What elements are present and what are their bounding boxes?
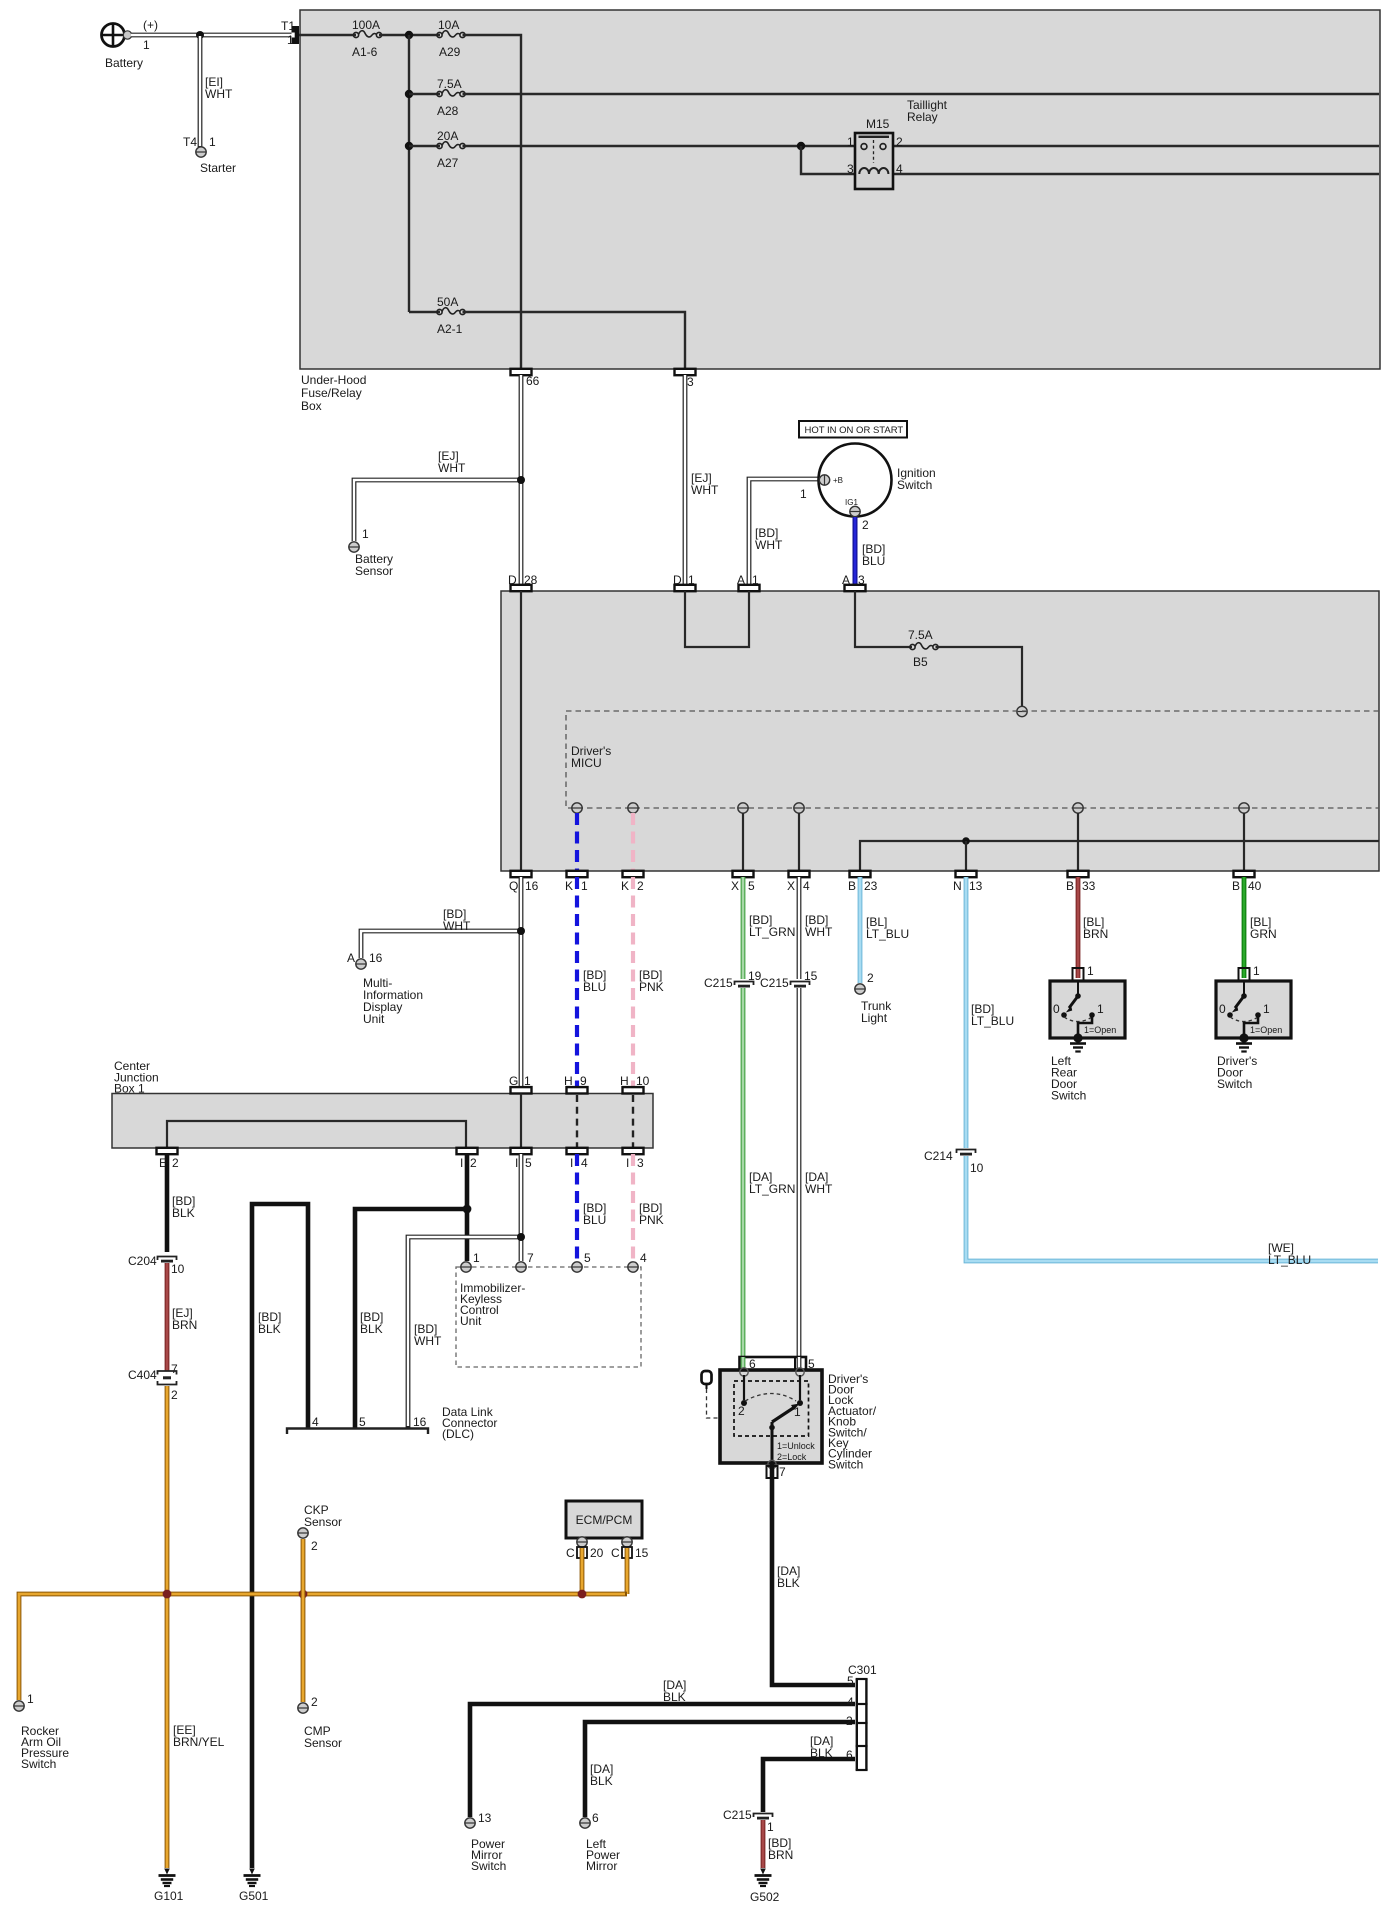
svg-text:C404: C404 [128, 1368, 157, 1382]
wire I2 to immobilizer pin 1 ([BD] BLK) [465, 1154, 470, 1261]
connector pin 66 [511, 369, 532, 375]
driver MICU dashed outline [566, 711, 1379, 808]
svg-text:2: 2 [172, 1156, 179, 1170]
svg-text:16: 16 [525, 879, 539, 893]
svg-text:(DLC): (DLC) [442, 1427, 474, 1441]
svg-text:BLU: BLU [583, 980, 606, 994]
svg-text:4: 4 [581, 1156, 588, 1170]
svg-text:G501: G501 [239, 1889, 269, 1903]
svg-text:2=Lock: 2=Lock [777, 1452, 807, 1462]
connector pin H 10 [623, 1087, 644, 1093]
svg-text:N: N [953, 879, 962, 893]
wire B23 to trunk light ([BL] LT_BLU) [858, 877, 863, 983]
connector pin A 3 [845, 585, 866, 591]
wire to fuse A27 [409, 145, 440, 147]
svg-text:9: 9 [580, 1074, 587, 1088]
svg-text:D: D [508, 573, 517, 587]
svg-text:WHT: WHT [438, 461, 466, 475]
svg-text:Switch: Switch [897, 478, 932, 492]
knob switch dashed box [734, 1381, 809, 1436]
wire to fuse A2-1 [409, 311, 440, 313]
svg-text:3: 3 [858, 573, 865, 587]
wire I3 to immobilizer pin 4 ([BD] PNK dashed) [631, 1154, 635, 1261]
wire C404 to G101 ([EE] BRN/YEL) [165, 1386, 170, 1868]
svg-text:Unit: Unit [460, 1314, 482, 1328]
junction ECM C20 [578, 1590, 587, 1599]
svg-text:1: 1 [847, 135, 854, 149]
driver door switch [1216, 964, 1291, 1091]
wire N13 to C214 ([BD] LT_BLU) [964, 877, 969, 1148]
svg-text:I: I [570, 1156, 573, 1170]
wire fuse A28 to box right edge [463, 93, 1380, 95]
svg-text:Sensor: Sensor [355, 564, 393, 578]
svg-text:BLK: BLK [810, 1746, 833, 1760]
wire B33 to left rear door switch ([BL] BRN) [1076, 877, 1081, 978]
fuse A27 20A [437, 142, 465, 149]
wire relay pin 4 to box right edge [893, 173, 1379, 175]
svg-text:10: 10 [171, 1262, 185, 1276]
junction DLC ground branch [463, 1205, 472, 1214]
svg-text:A28: A28 [437, 104, 459, 118]
svg-text:2: 2 [896, 135, 903, 149]
svg-text:7.5A: 7.5A [437, 77, 462, 91]
wire bus to CMP sensor [301, 1594, 306, 1702]
svg-text:1: 1 [752, 573, 759, 587]
MICU input terminal [1017, 706, 1027, 716]
svg-text:Switch: Switch [828, 1457, 863, 1471]
connector pin B 23 [850, 871, 871, 877]
svg-text:4: 4 [640, 1251, 647, 1265]
svg-text:1: 1 [688, 573, 695, 587]
svg-text:16: 16 [369, 951, 383, 965]
svg-text:16: 16 [413, 1415, 427, 1429]
svg-text:6: 6 [592, 1811, 599, 1825]
internal wire A3 to fuse B5 [855, 591, 912, 647]
internal wire D28 to Q16 [520, 591, 522, 871]
internal wire D1 to A1 [685, 591, 749, 647]
svg-text:Switch: Switch [21, 1757, 56, 1771]
svg-text:M15: M15 [866, 117, 890, 131]
svg-text:Relay: Relay [907, 110, 938, 124]
svg-text:1: 1 [27, 1692, 34, 1706]
svg-text:BLK: BLK [663, 1690, 686, 1704]
svg-text:A27: A27 [437, 156, 459, 170]
svg-text:G502: G502 [750, 1890, 780, 1904]
fuse A1-6 100A [353, 31, 381, 38]
svg-text:C215: C215 [704, 976, 733, 990]
svg-text:B: B [1066, 879, 1074, 893]
MICU terminal B33 [1073, 803, 1083, 813]
svg-text:15: 15 [804, 969, 818, 983]
svg-text:WHT: WHT [805, 1182, 833, 1196]
svg-text:A1-6: A1-6 [352, 45, 378, 59]
multi-info display terminal [356, 959, 366, 969]
switch contact 1 [799, 1375, 801, 1400]
svg-text:Switch: Switch [1051, 1089, 1086, 1103]
wire fuse A1-6 to junction and fuse A29 [379, 34, 440, 36]
svg-text:40: 40 [1248, 879, 1262, 893]
svg-text:4: 4 [312, 1415, 319, 1429]
svg-text:1: 1 [524, 1074, 531, 1088]
switch arc [745, 1394, 796, 1402]
svg-text:I: I [460, 1156, 463, 1170]
svg-text:I: I [515, 1156, 518, 1170]
internal wire H10 to I3 (dashed) [632, 1095, 634, 1148]
wire to fuse A28 [409, 93, 440, 95]
svg-text:66: 66 [526, 374, 540, 388]
ground G501 [244, 1869, 261, 1887]
connector pin I 2 [457, 1148, 478, 1154]
connector pin H 9 [567, 1087, 588, 1093]
svg-text:C215: C215 [760, 976, 789, 990]
connector C204 pin 10 [158, 1257, 177, 1262]
ignition switch [819, 444, 892, 517]
wire C215 to door lock pin 5 (white, [DA] WHT) [797, 988, 802, 1369]
data link connector (DLC) [287, 1429, 428, 1435]
CKP sensor terminal [298, 1528, 308, 1538]
svg-text:1: 1 [473, 1251, 480, 1265]
svg-text:WHT: WHT [755, 538, 783, 552]
wire branch to multi-info display (white, [BD] WHT) [361, 931, 521, 958]
junction D before relay [797, 142, 805, 150]
svg-text:1: 1 [209, 135, 216, 149]
svg-text:1=Open: 1=Open [1250, 1025, 1282, 1035]
pin ring 5 [796, 1368, 804, 1376]
immobilizer-keyless control unit [456, 1267, 641, 1367]
svg-text:13: 13 [969, 879, 983, 893]
power mirror switch wire to C301 pin 4 ([DA] BLK) [470, 1704, 855, 1817]
internal wire E2 to I2 [167, 1121, 466, 1148]
svg-text:H: H [564, 1074, 573, 1088]
junction B [405, 90, 413, 98]
wire C215 to G502 ([BD] BRN) [761, 1820, 766, 1868]
MICU terminal X5 [738, 803, 748, 813]
svg-text:MICU: MICU [571, 756, 602, 770]
svg-text:1: 1 [767, 1820, 774, 1834]
MICU terminal X4 [794, 803, 804, 813]
wire I4 to immobilizer pin 5 ([BD] BLU dashed) [575, 1154, 579, 1261]
connector pin D 1 [675, 585, 696, 591]
svg-text:LT_BLU: LT_BLU [866, 927, 909, 941]
key cylinder icon [702, 1371, 712, 1384]
internal wire X5 [742, 813, 744, 871]
switch contact 2 [743, 1375, 745, 1400]
svg-text:WHT: WHT [443, 919, 471, 933]
svg-text:2: 2 [470, 1156, 477, 1170]
svg-text:G: G [509, 1074, 518, 1088]
svg-text:GRN: GRN [1250, 927, 1277, 941]
svg-text:2: 2 [171, 1388, 178, 1402]
wire junction to starter (white, [EI] WHT) [198, 36, 203, 147]
wire K1 to H9 ([BD] BLU dashed) [575, 877, 579, 1087]
wire relay pin 2 to box right edge [886, 145, 1379, 147]
svg-text:7: 7 [527, 1251, 534, 1265]
svg-text:0: 0 [1053, 1002, 1060, 1016]
svg-text:WHT: WHT [805, 925, 833, 939]
svg-text:4: 4 [803, 879, 810, 893]
HOT IN ON OR START tag [799, 421, 907, 438]
wire B40 to driver door switch ([BL] GRN) [1242, 877, 1247, 978]
svg-text:C214: C214 [924, 1149, 953, 1163]
junction C [405, 142, 413, 150]
svg-text:Under-Hood: Under-Hood [301, 373, 366, 387]
connector C215 pin 15 [791, 982, 810, 987]
svg-text:5: 5 [847, 1674, 854, 1688]
connector pin B 40 [1234, 871, 1255, 877]
svg-text:33: 33 [1082, 879, 1096, 893]
svg-text:7.5A: 7.5A [908, 628, 933, 642]
battery sensor terminal [349, 542, 359, 552]
junction A [405, 31, 413, 39]
svg-text:WHT: WHT [205, 87, 233, 101]
svg-text:20A: 20A [437, 129, 458, 143]
svg-text:20: 20 [590, 1546, 604, 1560]
rocker arm oil pressure switch terminal [14, 1701, 24, 1711]
svg-text:IG1: IG1 [845, 498, 858, 507]
svg-text:BLK: BLK [258, 1322, 281, 1336]
svg-text:2: 2 [846, 1714, 853, 1728]
connector pin B 33 [1068, 871, 1089, 877]
vertical feed to lower fuses [408, 35, 410, 312]
svg-text:C204: C204 [128, 1254, 157, 1268]
wire E2 to C204 ([BD] BLK) [165, 1154, 170, 1252]
svg-text:1=Unlock: 1=Unlock [777, 1441, 815, 1451]
svg-text:1=Open: 1=Open [1084, 1025, 1116, 1035]
immobilizer pin 7 [516, 1262, 526, 1272]
connector pin G 1 [511, 1087, 532, 1093]
svg-text:4: 4 [896, 162, 903, 176]
connector pin K 2 [623, 871, 644, 877]
pin ring 6 [740, 1368, 748, 1376]
svg-text:BLK: BLK [777, 1576, 800, 1590]
svg-text:Switch: Switch [1217, 1077, 1252, 1091]
svg-text:Box: Box [301, 399, 322, 413]
svg-text:C215: C215 [723, 1808, 752, 1822]
wire junction to DLC pin 5 ([BD] BLK) [355, 1209, 467, 1428]
svg-text:13: 13 [478, 1811, 492, 1825]
junction N13 [962, 837, 970, 845]
svg-text:2: 2 [738, 1404, 745, 1418]
wire pin 3 to D1 (white, [EJ] WHT) [683, 375, 688, 585]
fuse A28 7.5A [437, 90, 465, 97]
svg-text:I: I [626, 1156, 629, 1170]
svg-text:WHT: WHT [691, 483, 719, 497]
connector pin K 1 [567, 871, 588, 877]
wire stubs through connector [741, 1357, 746, 1369]
svg-text:(+): (+) [143, 18, 158, 32]
left rear door switch [1050, 964, 1125, 1103]
junction MID branch [517, 927, 525, 935]
svg-text:C: C [611, 1546, 620, 1560]
connector pin I 5 [511, 1148, 532, 1154]
fuse A29 10A [437, 31, 465, 38]
internal wire X4 [798, 813, 800, 871]
connector pin Q 16 [511, 871, 532, 877]
ground G101 [159, 1869, 176, 1887]
svg-text:3: 3 [637, 1156, 644, 1170]
wire ignition +B to A1 (white, [BD] WHT) [749, 479, 819, 585]
svg-text:BRN: BRN [1083, 927, 1108, 941]
left power mirror terminal [580, 1818, 590, 1828]
svg-text:50A: 50A [437, 295, 458, 309]
wire branch to DLC pin 16 (white, [BD] WHT) [408, 1237, 521, 1428]
svg-text:1: 1 [143, 38, 150, 52]
ECM terminal C 20 [577, 1537, 587, 1547]
svg-text:5: 5 [584, 1251, 591, 1265]
svg-text:Starter: Starter [200, 161, 236, 175]
orange bus wire ([EE] BRN/YEL net) [19, 1594, 627, 1700]
connector pin E 2 [157, 1148, 178, 1154]
connector C301 [856, 1679, 868, 1770]
junction at battery wire [196, 31, 204, 39]
svg-text:T1: T1 [281, 19, 295, 33]
svg-text:3: 3 [687, 375, 694, 389]
internal wire B40 [1243, 813, 1245, 871]
svg-text:BLK: BLK [590, 1774, 613, 1788]
fuse A2-1 50A [437, 308, 465, 315]
wire pin 66 to D28 (white, [EJ] WHT) [519, 375, 524, 585]
internal wire K2 (pink dashed) [631, 813, 635, 871]
wire door lock pin 7 to C301 pin 5 ([DA] BLK) [772, 1464, 855, 1685]
svg-text:BLU: BLU [583, 1213, 606, 1227]
internal wire B33 [1077, 813, 1079, 871]
svg-text:2: 2 [867, 971, 874, 985]
svg-text:1: 1 [1263, 1002, 1270, 1016]
svg-text:X: X [731, 879, 739, 893]
wire lever to pin 7 [771, 1422, 774, 1464]
junction G101 branch [163, 1590, 172, 1599]
svg-text:0: 0 [1219, 1002, 1226, 1016]
trunk light terminal [855, 984, 865, 994]
wire C204 to C404 ([EJ] BRN) [165, 1263, 170, 1371]
driver door lock actuator box [720, 1370, 822, 1463]
svg-text:A: A [737, 573, 745, 587]
svg-text:2: 2 [311, 1539, 318, 1553]
svg-text:A: A [842, 573, 850, 587]
pin ring 7 [768, 1460, 776, 1468]
connector T1 pin 1 [292, 26, 300, 44]
internal wire K1 (blue dashed) [575, 813, 579, 871]
svg-text:WHT: WHT [414, 1334, 442, 1348]
svg-text:B: B [848, 879, 856, 893]
ignition +B terminal [819, 475, 829, 485]
connector pin X 4 [789, 871, 810, 877]
svg-text:2: 2 [311, 1695, 318, 1709]
svg-text:B: B [1232, 879, 1240, 893]
junction DLC16 branch [517, 1233, 525, 1241]
MICU terminal B40 [1239, 803, 1249, 813]
svg-text:LT_GRN: LT_GRN [749, 1182, 795, 1196]
wire X5 to C215 ([BD] LT_GRN) [741, 877, 746, 979]
door lock connector pins 6 and 5 [740, 1357, 807, 1371]
svg-text:G101: G101 [154, 1889, 184, 1903]
internal wire H9 to I4 (dashed) [576, 1095, 578, 1148]
connector pin N 13 [956, 871, 977, 877]
svg-text:B5: B5 [913, 655, 928, 669]
svg-text:LT_BLU: LT_BLU [1268, 1253, 1311, 1267]
ECM/PCM [566, 1501, 642, 1538]
taillight relay M15 [855, 133, 893, 189]
svg-text:C: C [566, 1546, 575, 1560]
wire branch to battery sensor (white) [354, 480, 521, 541]
CMP sensor terminal [298, 1703, 308, 1713]
svg-text:Battery: Battery [105, 56, 143, 70]
internal wire G1 to I5 [520, 1094, 522, 1149]
svg-text:15: 15 [635, 1546, 649, 1560]
immobilizer pin 1 [461, 1262, 471, 1272]
wire fuse A27 to relay contact [463, 145, 862, 147]
svg-text:3: 3 [847, 162, 854, 176]
wire Q16 to G1 (white) [519, 877, 524, 1087]
connector pin I 3 [623, 1148, 644, 1154]
svg-text:5: 5 [359, 1415, 366, 1429]
immobilizer pin 4 [628, 1262, 638, 1272]
svg-text:+B: +B [833, 476, 843, 485]
svg-text:BLK: BLK [172, 1206, 195, 1220]
svg-text:BLU: BLU [862, 554, 885, 568]
svg-text:D: D [673, 573, 682, 587]
connector pin 3 [675, 369, 696, 375]
wire junction D to relay coil pin 3 [801, 146, 856, 174]
svg-text:K: K [565, 879, 573, 893]
wire C214 to right edge ([WE] LT_BLU) [966, 1156, 1378, 1261]
wire fuse B5 to MICU terminal [936, 647, 1023, 706]
svg-text:10: 10 [970, 1161, 984, 1175]
svg-text:BRN/YEL: BRN/YEL [173, 1735, 225, 1749]
wire DLC pin 4 to G501 ([BD] BLK) [252, 1204, 308, 1868]
junction CKP/CMP [299, 1590, 308, 1599]
svg-text:1: 1 [1097, 1002, 1104, 1016]
svg-text:A2-1: A2-1 [437, 322, 463, 336]
svg-text:5: 5 [525, 1156, 532, 1170]
svg-text:7: 7 [779, 1465, 786, 1479]
svg-text:6: 6 [846, 1748, 853, 1762]
connector C215 pin 1 [754, 1814, 773, 1819]
svg-text:BRN: BRN [172, 1318, 197, 1332]
svg-text:1: 1 [800, 487, 807, 501]
wire fuse A29 to pin 66 drop [463, 35, 522, 369]
wire ECM C15 down to bus end [625, 1548, 630, 1594]
ground G502 [755, 1869, 772, 1887]
svg-text:LT_GRN: LT_GRN [749, 925, 795, 939]
svg-text:10A: 10A [438, 18, 459, 32]
svg-text:Switch: Switch [471, 1859, 506, 1873]
svg-text:ECM/PCM: ECM/PCM [576, 1513, 633, 1527]
wire battery to T1 (white) [131, 33, 292, 38]
driver under-dash fuse/relay box [501, 591, 1379, 871]
svg-text:10: 10 [636, 1074, 650, 1088]
key cylinder dashed link [707, 1389, 720, 1418]
wire K2 to H10 ([BD] PNK dashed) [631, 877, 635, 1087]
connector pin D 28 [511, 585, 532, 591]
svg-text:H: H [620, 1074, 629, 1088]
ECM terminal C 15 [622, 1537, 632, 1547]
fuse B5 7.5A [910, 643, 938, 650]
wire CKP to bus [301, 1539, 306, 1594]
svg-text:A29: A29 [439, 45, 461, 59]
under-hood fuse/relay box [300, 10, 1380, 369]
svg-text:5: 5 [748, 879, 755, 893]
wire ECM C20 down [580, 1548, 585, 1594]
lever pivot [769, 1425, 775, 1431]
svg-text:Fuse/Relay: Fuse/Relay [301, 386, 362, 400]
wire fuse A2-1 to pin 3 drop [463, 312, 686, 369]
MICU terminal K1 [572, 803, 582, 813]
svg-text:Q: Q [509, 879, 518, 893]
battery B1 [102, 24, 132, 47]
svg-text:28: 28 [524, 573, 538, 587]
left power mirror wire to C301 pin 2 ([DA] BLK) [585, 1722, 855, 1817]
